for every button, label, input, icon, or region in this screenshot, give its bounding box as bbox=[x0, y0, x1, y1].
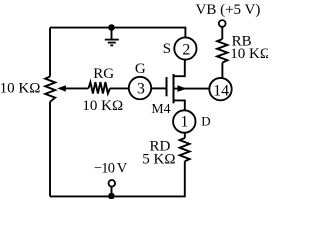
wire left rail lower bbox=[49, 102, 51, 197]
wire bottom horizontal bbox=[50, 161, 185, 196]
svg-text:S: S bbox=[163, 41, 171, 57]
node 2 circle bbox=[174, 37, 196, 59]
wire RB to node 14 bbox=[221, 63, 223, 78]
transistor M4 gate bar bbox=[166, 77, 168, 96]
VB terminal circle bbox=[219, 20, 226, 27]
svg-text:−10 V: −10 V bbox=[94, 161, 128, 177]
wire RG to node 3 bbox=[110, 87, 129, 89]
transistor M4 bulk lead bbox=[174, 88, 210, 90]
svg-text:M4: M4 bbox=[151, 101, 170, 116]
-10V terminal circle bbox=[109, 180, 116, 187]
node 3 circle bbox=[129, 77, 151, 99]
transistor M4 channel bar bbox=[173, 74, 175, 103]
svg-text:14: 14 bbox=[213, 82, 229, 99]
transistor M4 drain lead bbox=[174, 100, 185, 110]
svg-text:3: 3 bbox=[137, 81, 145, 98]
svg-text:10 KΩ: 10 KΩ bbox=[230, 46, 268, 62]
wire node 2 to top bbox=[184, 37, 186, 39]
wire node 1 to RD bbox=[184, 133, 186, 138]
svg-text:RG: RG bbox=[93, 66, 114, 82]
node 14 circle bbox=[209, 78, 231, 100]
node 1 circle bbox=[173, 110, 195, 132]
svg-text:G: G bbox=[135, 61, 146, 77]
ground bbox=[105, 40, 119, 46]
wire top horizontal bbox=[50, 28, 185, 38]
resistor RD zigzag bbox=[180, 138, 190, 161]
transistor M4 source lead bbox=[174, 60, 185, 76]
resistor RG zigzag bbox=[89, 82, 110, 93]
svg-text:5 KΩ: 5 KΩ bbox=[142, 151, 175, 167]
wiper arrowhead bbox=[57, 85, 66, 91]
wire node 3 to gate bbox=[151, 87, 166, 89]
bulk arrowhead bbox=[177, 85, 186, 92]
-10V terminal stub bbox=[111, 187, 113, 194]
potentiometer wiper arrow bbox=[63, 87, 89, 89]
junction dot bottom bbox=[108, 193, 115, 200]
ground stub bbox=[111, 28, 113, 40]
svg-text:10 KΩ: 10 KΩ bbox=[82, 98, 123, 114]
svg-text:D: D bbox=[201, 114, 210, 129]
svg-text:VB (+5 V): VB (+5 V) bbox=[196, 2, 261, 18]
resistor RB zigzag bbox=[217, 39, 227, 63]
svg-text:2: 2 bbox=[182, 41, 190, 58]
wire VB terminal to RB bbox=[221, 27, 223, 39]
wire left rail upper bbox=[49, 28, 51, 77]
potentiometer 10 KΩ (left rail) bbox=[45, 77, 55, 102]
svg-text:10 KΩ: 10 KΩ bbox=[0, 80, 40, 96]
svg-text:1: 1 bbox=[180, 114, 188, 131]
junction dot top bbox=[108, 24, 115, 31]
